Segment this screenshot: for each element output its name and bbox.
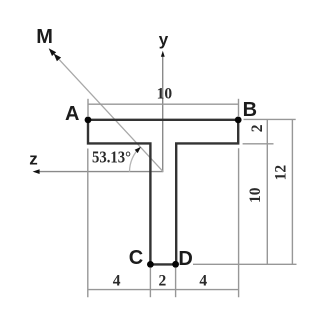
label M <box>36 26 53 48</box>
z-axis label <box>29 150 38 169</box>
moment vector M line <box>59 60 163 172</box>
angle value label 53.13deg <box>92 148 131 167</box>
bottom extension line at B <box>238 148 240 297</box>
right dimension text 10 <box>247 187 264 203</box>
label D <box>178 248 192 270</box>
label C <box>129 247 143 269</box>
node C dot <box>147 261 154 268</box>
y-axis label <box>159 30 169 49</box>
svg-text:2: 2 <box>159 272 167 289</box>
bottom extension line at D <box>175 268 177 297</box>
bottom dimension line (4 2 4) <box>88 289 239 291</box>
top dimension extension line at B <box>238 99 240 116</box>
svg-text:A: A <box>65 103 79 125</box>
right dimension text 12 <box>272 165 289 181</box>
angle arc 53.13 <box>130 147 141 172</box>
right dimension line (2 and 10) <box>266 119 268 264</box>
label B <box>243 99 257 121</box>
svg-text:C: C <box>129 247 143 269</box>
bottom extension line at C <box>149 268 151 297</box>
right dimension line (12) <box>291 119 293 264</box>
svg-text:M: M <box>36 26 53 48</box>
y-axis line <box>162 56 164 172</box>
z-axis line <box>39 171 164 173</box>
T-section outline <box>88 120 238 265</box>
right extension line at B level <box>244 118 296 120</box>
svg-text:z: z <box>29 150 38 169</box>
top dimension extension line at A <box>87 99 89 116</box>
y-axis arrowhead <box>161 51 165 57</box>
right dimension text 2 <box>249 124 266 132</box>
right extension line at web bottom <box>193 263 297 265</box>
label A <box>65 103 79 125</box>
svg-text:53.13°: 53.13° <box>92 148 131 167</box>
right extension line at flange bottom <box>243 143 274 145</box>
top dimension line (10) <box>88 103 239 105</box>
bottom dimension text 4 left <box>113 272 121 289</box>
node A dot <box>85 117 92 124</box>
svg-text:4: 4 <box>113 272 121 289</box>
bottom dimension text 4 right <box>199 272 207 289</box>
svg-text:B: B <box>243 99 257 121</box>
svg-text:2: 2 <box>249 124 266 132</box>
svg-text:10: 10 <box>157 86 173 103</box>
z-axis arrowhead <box>33 169 40 174</box>
svg-text:12: 12 <box>272 165 289 181</box>
moment vector M double arrowhead <box>49 48 61 61</box>
bottom extension line at A <box>87 149 89 298</box>
svg-text:10: 10 <box>247 187 264 203</box>
svg-text:D: D <box>178 248 192 270</box>
svg-text:y: y <box>159 30 169 49</box>
top dimension text 10 <box>157 86 173 103</box>
node D dot <box>172 261 179 268</box>
bottom dimension text 2 <box>159 272 167 289</box>
angle arc arrowhead <box>135 147 141 153</box>
svg-text:4: 4 <box>199 272 207 289</box>
node B dot <box>235 117 242 124</box>
